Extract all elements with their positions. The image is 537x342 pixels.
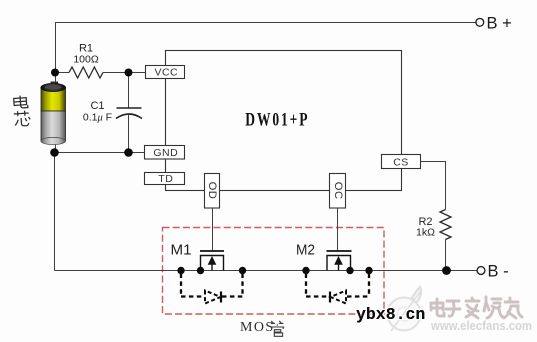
svg-text:OC: OC [332,182,344,200]
wire battery top vertical [55,23,57,73]
svg-text:M1: M1 [171,242,192,259]
battery cell [41,82,66,145]
op-amp U1 DW01+P IC outline [166,51,402,191]
wire left vertical to B- rail [54,153,56,271]
wire R2 bottom lead [445,240,447,271]
resistor R2 zigzag [440,210,451,240]
芯 [14,110,29,116]
pin VCC box [146,66,185,79]
pin OD box [205,174,220,209]
wire B+ top rail [55,22,476,24]
svg-text:1kΩ: 1kΩ [416,227,435,239]
svg-text:www.elecfans.com: www.elecfans.com [430,319,532,333]
pin CS box [382,155,421,169]
wire gate M1 from OD [212,208,214,251]
svg-text:VCC: VCC [154,67,178,79]
svg-text:MOS: MOS [240,320,275,335]
transistor M2 symbol [327,251,352,271]
电 [437,299,444,316]
电 [20,95,28,108]
pin OC box [330,174,346,209]
发 [466,298,479,318]
capacitor C1 top plate [117,107,142,109]
svg-text:B -: B - [488,263,509,281]
terminal B+ [476,18,484,26]
svg-text:TD: TD [158,173,173,185]
wire battery bottom to GND [55,152,145,154]
node junction dots [50,69,451,275]
body diode D2 dashed loop [306,274,369,304]
烧 [484,297,503,318]
terminal B- [477,267,485,275]
battery label 电芯 (hand-drawn) [13,95,31,127]
子 [446,301,460,316]
red dashed MOS enclosure [163,228,385,315]
annotation MOS管 [240,320,284,336]
elecfans watermark swirl logo [388,287,422,331]
svg-text:CS: CS [393,157,409,169]
body diode D1 dashed loop [181,274,243,304]
wire C1 top lead [128,73,130,109]
svg-text:ybx8.cn: ybx8.cn [356,305,425,324]
svg-text:0.1μ F: 0.1μ F [83,112,112,124]
wire R1 right lead to VCC [103,72,145,74]
svg-text:OD: OD [206,182,218,200]
svg-text:GND: GND [153,147,178,159]
svg-text:C1: C1 [90,100,104,112]
transistor M1 symbol [200,251,224,271]
pin GND box [145,146,185,160]
wire B- rail [55,270,478,272]
友 [504,298,522,318]
watermark text 电子发烧友 (hand-drawn strokes) [431,297,522,318]
svg-text:M2: M2 [296,242,315,259]
wire C1 bottom lead [128,114,130,153]
wire battery through vertical [55,73,57,153]
pin TD box [145,173,185,185]
svg-text:B +: B + [487,15,512,33]
wire gate M2 from OC [337,208,339,251]
svg-text:DW01+P: DW01+P [245,110,309,131]
IC U1 label DW01+P [245,110,309,131]
resistor R1 zigzag [69,67,103,78]
wire R1 left lead [55,72,69,74]
wire CS to R2 [421,162,446,210]
svg-text:100Ω: 100Ω [73,54,99,66]
capacitor C1 curved bottom plate [116,114,142,119]
